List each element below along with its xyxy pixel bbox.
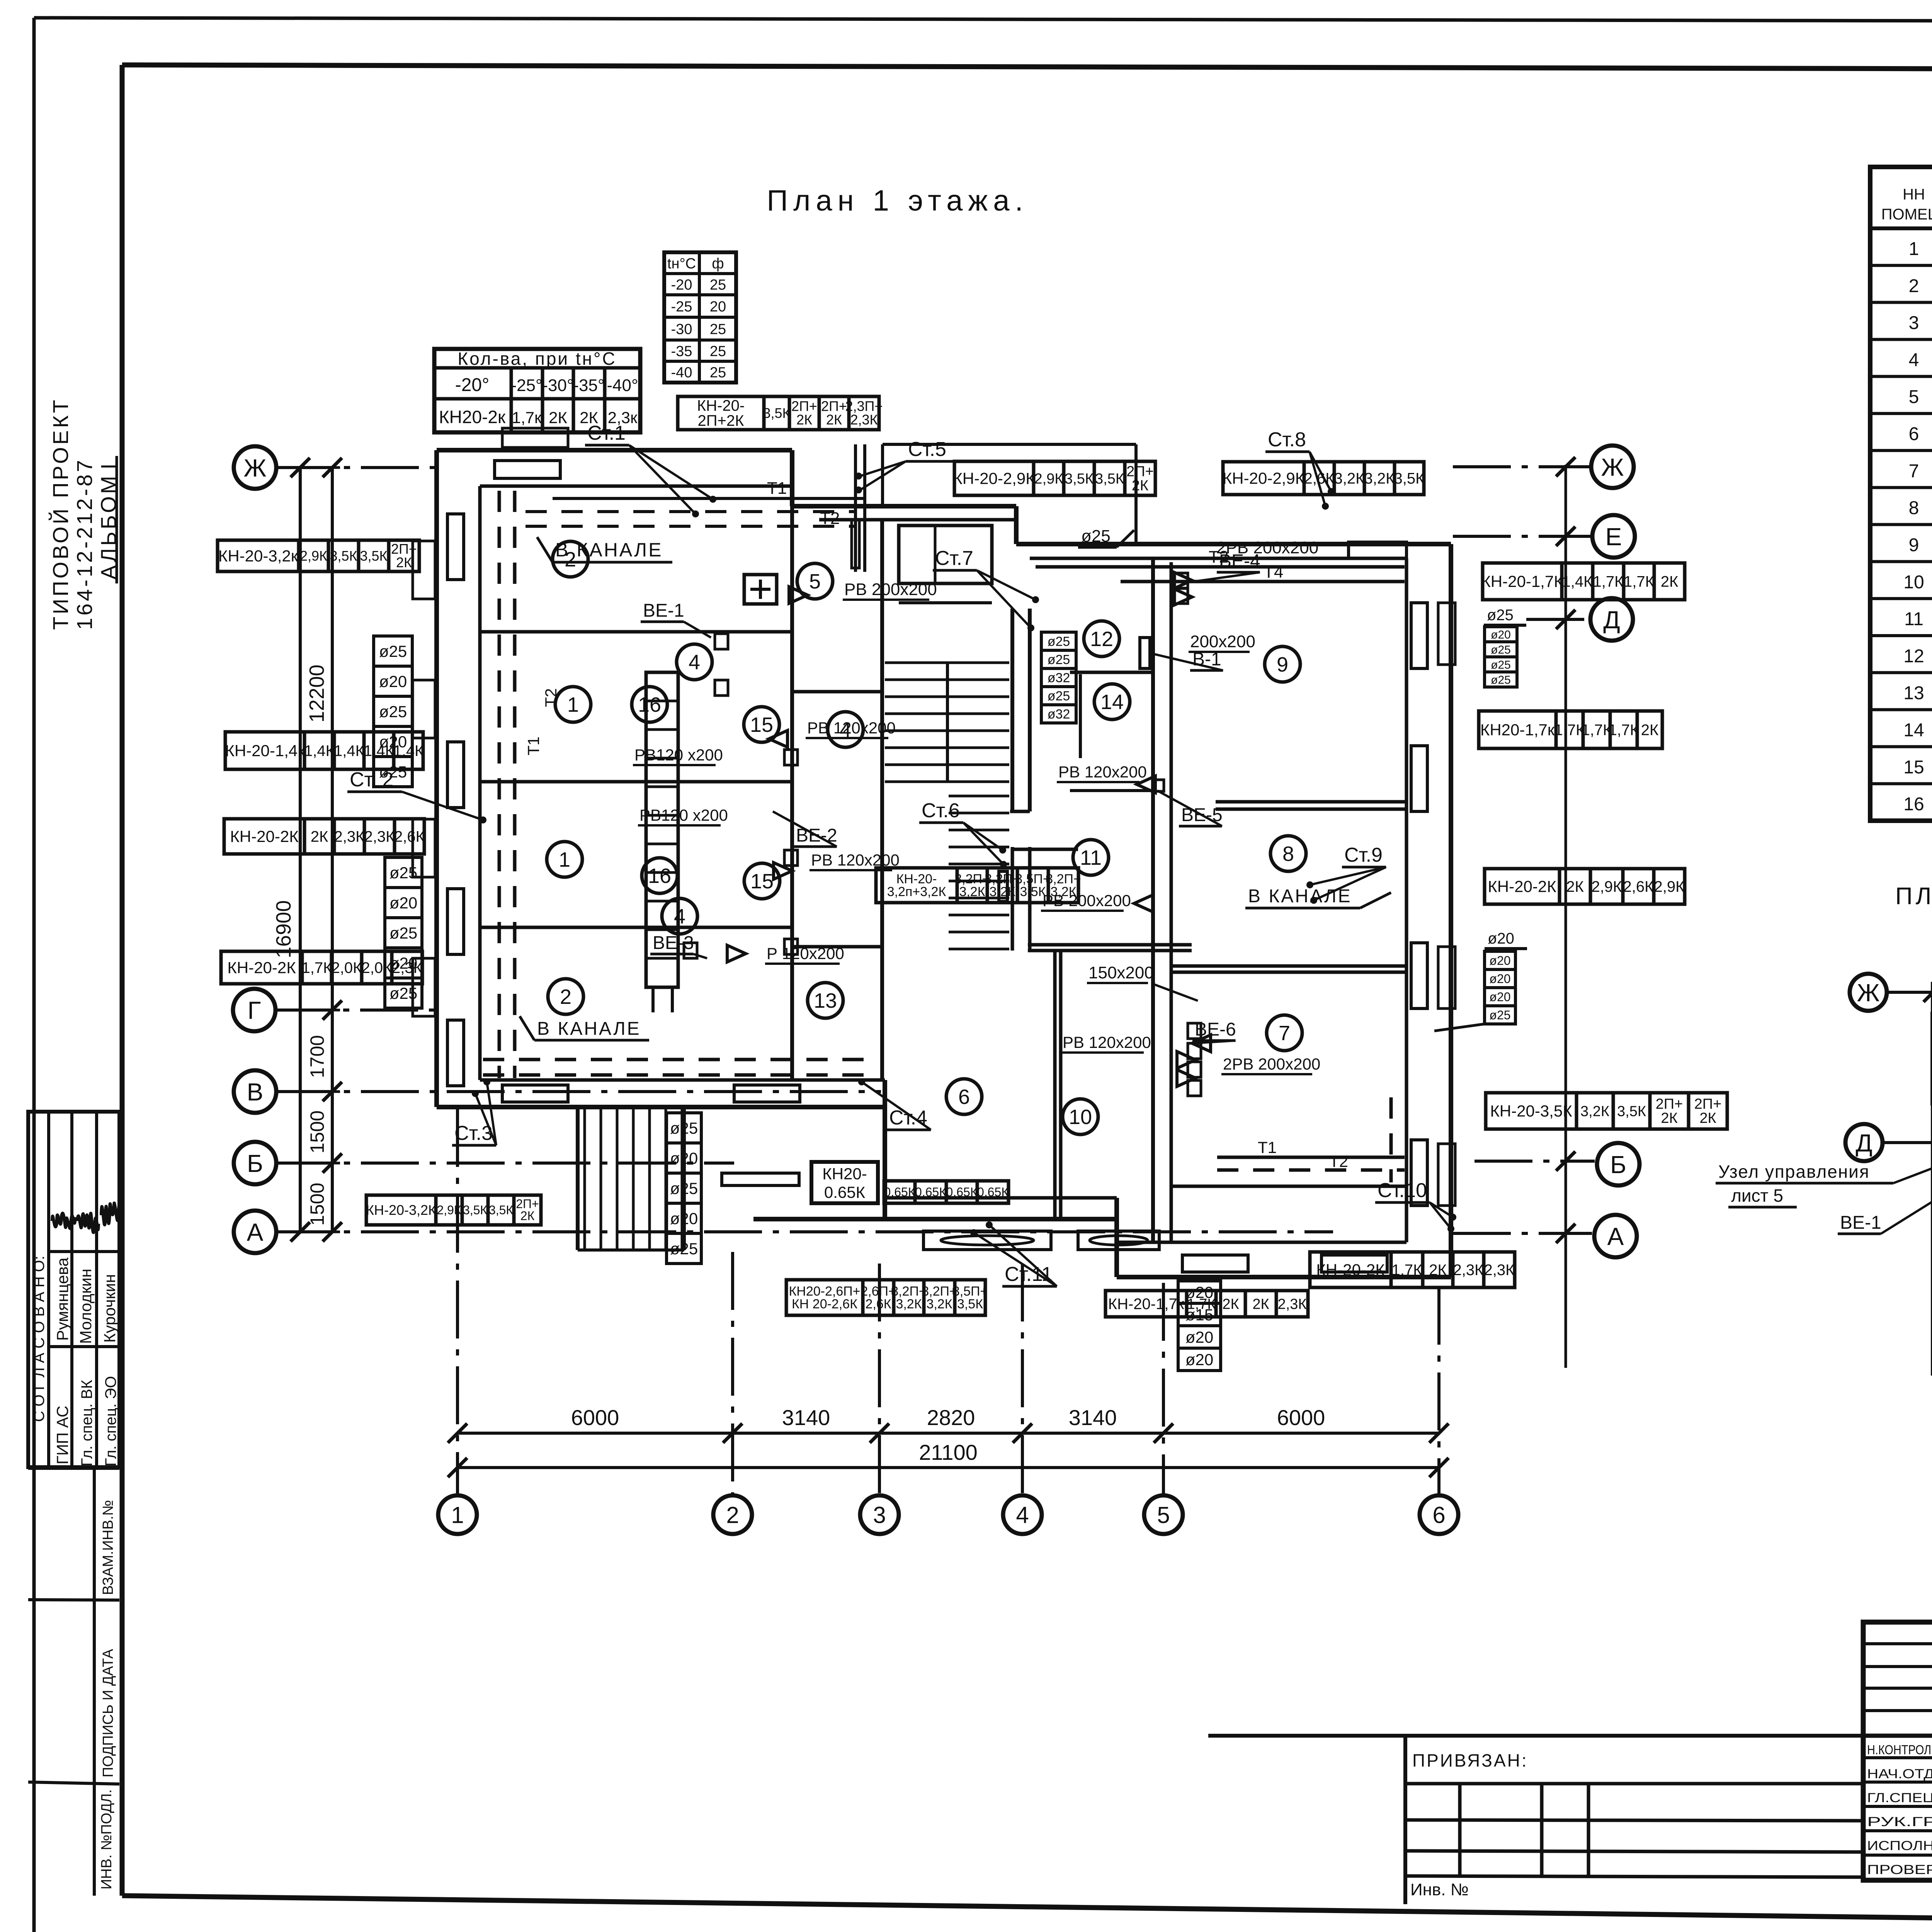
svg-text:12: 12 — [1903, 646, 1924, 667]
stamp signatures — [52, 1213, 75, 1229]
radiators north wall — [495, 461, 560, 478]
wall: east exterior — [1449, 544, 1453, 1277]
label table KN-20-2 left 3 — [221, 951, 302, 984]
svg-text:-30: -30 — [671, 321, 692, 338]
basement axis D left — [1883, 1141, 1932, 1144]
svg-text:13: 13 — [1903, 683, 1924, 704]
main stair treads upper flight — [885, 662, 1009, 664]
label table KN-20-1,7 right upper — [1483, 563, 1562, 600]
svg-text:0,65К: 0,65К — [884, 1185, 915, 1199]
axis Б — [234, 1142, 276, 1184]
svg-text:Ст.3: Ст.3 — [454, 1122, 493, 1145]
room 4 — [662, 898, 697, 934]
svg-text:КН-20-1,7к: КН-20-1,7к — [1108, 1296, 1184, 1313]
svg-text:Е: Е — [1605, 523, 1622, 551]
svg-text:1,4К: 1,4К — [1562, 573, 1593, 590]
svg-text:ø25: ø25 — [389, 924, 417, 942]
svg-text:Ж: Ж — [1601, 453, 1624, 481]
small duct squares — [715, 634, 728, 649]
label table KN-20-1,7 bottom mid — [1105, 1291, 1187, 1317]
svg-text:1: 1 — [567, 693, 579, 716]
svg-text:14: 14 — [1903, 720, 1924, 741]
svg-text:150х200: 150х200 — [1088, 963, 1154, 982]
label table 0,65 strip — [884, 1181, 915, 1203]
svg-text:Г: Г — [248, 997, 261, 1024]
wall: west exterior — [434, 450, 439, 1107]
svg-text:4: 4 — [1909, 350, 1919, 370]
svg-text:16: 16 — [1903, 794, 1924, 815]
svg-text:КН-20-2К: КН-20-2К — [227, 959, 296, 977]
svg-text:КН20-1,7к: КН20-1,7к — [1480, 721, 1555, 739]
svg-text:ø20: ø20 — [1489, 972, 1510, 986]
svg-text:2,3К: 2,3К — [850, 412, 878, 428]
axis line A right — [1453, 1232, 1592, 1235]
porch pads — [923, 1231, 1051, 1250]
svg-text:3,5К: 3,5К — [763, 405, 790, 421]
svg-text:1: 1 — [451, 1502, 464, 1528]
svg-text:Ст.4: Ст.4 — [889, 1107, 927, 1129]
svg-text:2,0К: 2,0К — [332, 959, 362, 976]
radiators east wall — [1411, 603, 1427, 668]
svg-text:164-12-212-87: 164-12-212-87 — [72, 458, 97, 630]
svg-text:2,6К: 2,6К — [865, 1297, 891, 1311]
pipe T2 top — [526, 510, 855, 513]
svg-text:2К: 2К — [311, 828, 328, 845]
svg-text:ø25: ø25 — [1048, 634, 1070, 649]
svg-text:3140: 3140 — [1069, 1405, 1117, 1430]
svg-text:ø32: ø32 — [1048, 671, 1070, 685]
svg-text:2: 2 — [1909, 276, 1919, 296]
svg-text:ø25: ø25 — [389, 984, 417, 1002]
svg-text:2К: 2К — [826, 412, 842, 428]
svg-text:КН20-: КН20- — [822, 1165, 867, 1183]
svg-text:КН-20-3,2к: КН-20-3,2к — [218, 547, 298, 565]
svg-text:3,5К: 3,5К — [1394, 470, 1425, 487]
svg-text:2П+: 2П+ — [1694, 1096, 1722, 1112]
svg-text:2: 2 — [560, 985, 571, 1009]
svg-text:2,6К: 2,6К — [1623, 878, 1654, 895]
svg-text:2К: 2К — [1641, 722, 1659, 739]
svg-text:2П+2К: 2П+2К — [698, 412, 745, 429]
svg-text:-25°: -25° — [511, 376, 542, 395]
room 12 — [1084, 621, 1119, 656]
svg-text:16: 16 — [638, 693, 661, 716]
svg-text:Молодкин: Молодкин — [77, 1269, 95, 1344]
svg-text:ø20: ø20 — [389, 894, 417, 912]
room 4 — [677, 644, 712, 680]
svg-text:ø20: ø20 — [389, 954, 417, 972]
svg-text:ø25: ø25 — [1487, 607, 1514, 624]
svg-text:ø25: ø25 — [1491, 658, 1511, 671]
radiators south walls — [502, 1085, 568, 1102]
svg-text:1,7К: 1,7К — [1392, 1262, 1423, 1279]
svg-text:11: 11 — [1080, 846, 1102, 869]
svg-text:ВЕ-1: ВЕ-1 — [1840, 1213, 1881, 1233]
svg-text:2К: 2К — [1661, 573, 1679, 590]
svg-text:2К: 2К — [549, 408, 567, 427]
svg-text:3,5К: 3,5К — [489, 1203, 513, 1217]
privyazan box — [1208, 1734, 1863, 1738]
label table KN-20-2p+2k — [678, 396, 764, 430]
svg-text:3,2п+3,2К: 3,2п+3,2К — [887, 884, 946, 899]
svg-text:Ст.8: Ст.8 — [1268, 429, 1306, 451]
svg-text:3: 3 — [1909, 313, 1919, 333]
svg-text:1,7К: 1,7К — [1593, 573, 1624, 590]
svg-text:4: 4 — [689, 651, 700, 674]
table Kol-vo pri tn — [434, 349, 640, 432]
svg-text:В КАНАЛЕ: В КАНАЛЕ — [537, 1019, 641, 1039]
pipes south right block — [1217, 1156, 1405, 1159]
svg-text:ИНВ. №ПОДЛ.: ИНВ. №ПОДЛ. — [99, 1789, 115, 1889]
svg-text:-40: -40 — [671, 365, 692, 381]
axis 6 — [1420, 1495, 1458, 1534]
svg-text:2РВ 200х200: 2РВ 200х200 — [1216, 538, 1318, 557]
axis Г — [233, 989, 276, 1031]
room 13 — [808, 983, 843, 1018]
svg-text:С О Г Л А С О В А Н О:: С О Г Л А С О В А Н О: — [31, 1256, 48, 1422]
svg-text:2820: 2820 — [927, 1405, 975, 1430]
svg-text:16: 16 — [648, 864, 671, 888]
svg-text:1,7к: 1,7к — [512, 408, 542, 427]
svg-text:А: А — [1607, 1223, 1624, 1250]
north porch outline — [881, 444, 884, 506]
svg-text:Н.КОНТРОЛЬ: Н.КОНТРОЛЬ — [1867, 1743, 1932, 1757]
svg-text:ø25: ø25 — [670, 1119, 698, 1137]
svg-text:Б: Б — [1610, 1151, 1626, 1179]
pipe dia stack entry S3 — [667, 1113, 701, 1143]
svg-text:2П+: 2П+ — [1126, 463, 1154, 480]
svg-text:ф: ф — [712, 256, 724, 272]
svg-text:3,2К: 3,2К — [1364, 470, 1395, 487]
label table KN-20-2 right lower — [1485, 869, 1560, 904]
svg-text:Д: Д — [1603, 606, 1620, 634]
room 8 — [1270, 836, 1306, 871]
partition rooms 9/8 — [1216, 800, 1406, 804]
partition kitchen bottom — [792, 690, 882, 694]
axis 1 — [438, 1495, 477, 1534]
svg-text:КН-20-1,4к: КН-20-1,4к — [225, 742, 305, 760]
svg-text:ø20: ø20 — [1488, 930, 1514, 947]
north vestibule — [899, 526, 992, 583]
svg-text:ø25: ø25 — [1081, 527, 1111, 546]
inner drawing frame — [122, 65, 1932, 70]
svg-text:КН-20-: КН-20- — [697, 397, 745, 414]
partition rooms 8/7 — [1171, 964, 1406, 968]
pipe T2 right block top — [1036, 565, 1405, 569]
svg-text:КН-20-3,2К: КН-20-3,2К — [366, 1202, 436, 1218]
svg-text:6000: 6000 — [1277, 1405, 1325, 1430]
svg-text:1700: 1700 — [306, 1035, 328, 1078]
svg-text:3,5К: 3,5К — [1617, 1103, 1646, 1119]
svg-text:ø25: ø25 — [1491, 643, 1511, 656]
pipe dia stack left S1 — [374, 636, 412, 666]
room 9 — [1265, 646, 1300, 682]
svg-text:2,3К: 2,3К — [1484, 1262, 1515, 1279]
svg-text:2К: 2К — [1132, 478, 1148, 494]
svg-text:ø25: ø25 — [379, 642, 407, 660]
svg-text:6: 6 — [1432, 1502, 1445, 1528]
svg-text:13: 13 — [814, 989, 837, 1012]
svg-text:Ст.10: Ст.10 — [1378, 1179, 1427, 1202]
room 10 — [1063, 1099, 1098, 1134]
label table KN20-2,6P two-row — [786, 1280, 863, 1315]
svg-text:5: 5 — [809, 570, 821, 593]
svg-text:10: 10 — [1069, 1105, 1092, 1129]
svg-text:В КАНАЛЕ: В КАНАЛЕ — [1248, 886, 1352, 906]
dim line left segments — [331, 468, 334, 1232]
wall: south of right block — [1117, 1275, 1451, 1279]
pipe dia stack right S6 — [1485, 951, 1515, 969]
svg-text:НАЧ.ОТД.: НАЧ.ОТД. — [1867, 1767, 1932, 1781]
main stair treads lower flight — [949, 795, 1009, 798]
svg-text:6000: 6000 — [571, 1405, 619, 1430]
svg-text:1,4К: 1,4К — [334, 743, 365, 760]
room 2 — [553, 541, 588, 577]
axis Е — [1592, 515, 1635, 558]
svg-text:Р 120х200: Р 120х200 — [767, 944, 844, 963]
svg-text:8: 8 — [1909, 498, 1919, 519]
svg-text:ø25: ø25 — [379, 702, 407, 721]
svg-text:В КАНАЛЕ: В КАНАЛЕ — [555, 539, 663, 561]
stamp block inv numbers — [28, 1467, 119, 1470]
pipe riser east wall — [1389, 1097, 1393, 1182]
room 11 walls — [1011, 847, 1014, 951]
svg-text:14: 14 — [1100, 690, 1124, 714]
svg-text:ø25: ø25 — [1489, 1008, 1510, 1022]
svg-text:КН-20-2К: КН-20-2К — [1316, 1261, 1385, 1279]
svg-text:ПРИВЯЗАН:: ПРИВЯЗАН: — [1412, 1750, 1528, 1770]
stair hall west wall — [880, 520, 884, 1080]
svg-text:ø20: ø20 — [1491, 628, 1511, 641]
svg-text:21100: 21100 — [919, 1440, 978, 1464]
axis line Zh — [275, 466, 437, 469]
axis line V — [275, 1090, 881, 1093]
room 7 — [1267, 1015, 1302, 1051]
kitchen appliance — [744, 575, 777, 604]
svg-text:РВ120 х200: РВ120 х200 — [639, 806, 728, 824]
svg-text:25: 25 — [710, 365, 726, 381]
axis line D — [1526, 618, 1590, 621]
vestibule radiator — [722, 1173, 799, 1185]
table tn/f — [664, 252, 736, 383]
svg-text:-35°: -35° — [573, 376, 604, 395]
svg-text:НН: НН — [1903, 186, 1925, 203]
stair hall east wall — [1010, 609, 1014, 811]
svg-text:25: 25 — [710, 277, 726, 293]
svg-text:ПОДПИСЬ И ДАТА: ПОДПИСЬ И ДАТА — [100, 1649, 116, 1777]
pipe dia stack right S5 — [1485, 627, 1517, 642]
partition under room 2 top — [480, 630, 792, 634]
svg-text:20: 20 — [710, 299, 726, 315]
extension lines left axes — [275, 466, 340, 469]
svg-text:1,7К: 1,7К — [1554, 722, 1585, 739]
svg-text:Б: Б — [247, 1150, 263, 1177]
svg-text:Д: Д — [1855, 1129, 1872, 1157]
svg-text:ВЗАМ.ИНВ.№: ВЗАМ.ИНВ.№ — [100, 1500, 116, 1595]
svg-text:лист 5: лист 5 — [1731, 1185, 1783, 1206]
svg-text:1500: 1500 — [306, 1183, 328, 1226]
svg-text:ø25: ø25 — [389, 864, 417, 882]
axis line A — [275, 1230, 1333, 1233]
svg-text:3,2К: 3,2К — [1580, 1103, 1609, 1119]
svg-text:ПОМЕЩ.: ПОМЕЩ. — [1881, 206, 1932, 223]
svg-text:15: 15 — [750, 713, 773, 736]
svg-text:ø25: ø25 — [1048, 689, 1070, 704]
svg-text:0,65К: 0,65К — [915, 1185, 946, 1199]
svg-text:2К: 2К — [1699, 1110, 1716, 1126]
svg-text:Курочкин: Курочкин — [100, 1274, 119, 1343]
stair hall north wall — [792, 504, 1016, 509]
svg-text:Узел управления: Узел управления — [1718, 1162, 1870, 1182]
svg-text:КН 20-2,6К: КН 20-2,6К — [792, 1297, 857, 1311]
axis Д — [1845, 1124, 1883, 1161]
svg-text:2,3К: 2,3К — [1453, 1262, 1484, 1279]
wall: south of left block — [437, 1105, 885, 1109]
partition rooms 12/14 — [1070, 671, 1153, 674]
title block — [1863, 1622, 1932, 1880]
svg-text:2,9К: 2,9К — [300, 548, 327, 564]
axis Ж — [1850, 974, 1887, 1011]
svg-text:3,5К: 3,5К — [330, 548, 357, 564]
svg-text:Ст.5: Ст.5 — [908, 438, 946, 461]
partition above room 2 bottom — [480, 926, 792, 929]
svg-text:2,9К: 2,9К — [1592, 878, 1622, 895]
kitchen risers — [854, 444, 857, 572]
pipe dia stack bottom S7 — [1178, 1281, 1221, 1303]
svg-text:ИСПОЛН.: ИСПОЛН. — [1867, 1838, 1932, 1853]
svg-text:ø25: ø25 — [1491, 673, 1511, 686]
svg-text:РВ 120х200: РВ 120х200 — [1058, 763, 1147, 781]
svg-text:0,65К: 0,65К — [946, 1185, 978, 1199]
svg-text:2К: 2К — [1661, 1110, 1677, 1126]
label table KN-20-3,5 right bottom — [1486, 1093, 1577, 1129]
svg-text:Т2: Т2 — [1329, 1152, 1348, 1170]
svg-text:2К: 2К — [1566, 878, 1584, 895]
svg-text:ø15: ø15 — [1185, 1306, 1213, 1324]
axis ref vertical right — [1565, 465, 1567, 1368]
svg-text:ø20: ø20 — [670, 1209, 698, 1228]
pipe T1/T2 risers west wall (dashed) — [498, 491, 501, 1078]
axis 4 — [1003, 1495, 1042, 1534]
wall: north exterior left block — [437, 448, 792, 452]
windows east outside — [1438, 603, 1455, 665]
svg-text:3,2К: 3,2К — [1334, 470, 1365, 487]
svg-text:КН-20-2К: КН-20-2К — [1488, 878, 1556, 896]
label table KN-20-2,9 top mid-left — [954, 461, 1034, 495]
svg-text:Румянцева: Румянцева — [53, 1257, 71, 1341]
svg-text:9: 9 — [1909, 535, 1919, 555]
svg-text:15: 15 — [1903, 757, 1924, 777]
room 16 — [642, 858, 677, 893]
pipe T1 top — [553, 497, 865, 500]
svg-text:9: 9 — [1277, 653, 1288, 676]
svg-text:Т1: Т1 — [767, 479, 787, 498]
svg-text:2,3К: 2,3К — [334, 828, 365, 845]
svg-text:5: 5 — [1157, 1502, 1170, 1528]
label table KN-20-3,2 left — [218, 540, 299, 571]
svg-text:2П+: 2П+ — [1656, 1096, 1683, 1112]
label table KN-20-3,2 left bottom — [366, 1195, 436, 1225]
label table KN-20-2 bottom right — [1310, 1252, 1391, 1287]
svg-text:РВ 120х200: РВ 120х200 — [1063, 1033, 1151, 1051]
svg-text:0,65К: 0,65К — [977, 1185, 1009, 1199]
svg-text:-30°: -30° — [542, 376, 573, 395]
axis Ж — [234, 446, 276, 489]
axis line B right — [1475, 1160, 1595, 1163]
svg-text:1,4К: 1,4К — [304, 743, 335, 760]
pipe dia stack left S2 — [385, 857, 422, 888]
svg-text:1,7К: 1,7К — [1624, 573, 1655, 590]
windows west outside — [413, 541, 435, 599]
KN20-0,65K box — [811, 1162, 878, 1203]
axis line B — [275, 1162, 734, 1165]
svg-text:2,3К: 2,3К — [364, 828, 395, 845]
label table KN20-1,7 right mid — [1479, 711, 1556, 748]
svg-text:Ст.1: Ст.1 — [587, 422, 626, 444]
room 1 — [555, 687, 591, 722]
svg-text:-35: -35 — [671, 344, 692, 360]
svg-text:ø20: ø20 — [670, 1149, 698, 1167]
basement axis Zh — [1887, 991, 1932, 994]
svg-text:25: 25 — [710, 321, 726, 338]
svg-text:5: 5 — [1909, 387, 1919, 407]
svg-text:Ж: Ж — [1857, 979, 1879, 1007]
room 15 — [744, 863, 780, 899]
axis А — [1594, 1215, 1637, 1257]
svg-text:ø20: ø20 — [1185, 1283, 1213, 1301]
svg-text:3,2К: 3,2К — [926, 1297, 952, 1311]
axis 3 — [860, 1495, 899, 1534]
svg-text:А: А — [247, 1218, 264, 1246]
wall: north step between blocks — [1014, 506, 1019, 544]
svg-text:25: 25 — [710, 344, 726, 360]
svg-text:7: 7 — [1909, 461, 1919, 481]
axis Д — [1590, 598, 1633, 641]
svg-text:16900: 16900 — [272, 900, 295, 958]
wall rooms 9 west — [1151, 558, 1155, 1242]
svg-text:ø20: ø20 — [1185, 1328, 1213, 1346]
wall: middle south connector — [883, 1080, 887, 1219]
svg-text:3,2К: 3,2К — [959, 884, 985, 899]
svg-text:2,6К: 2,6К — [394, 828, 425, 845]
svg-text:Ст.7: Ст.7 — [935, 547, 973, 570]
svg-text:1500: 1500 — [306, 1111, 328, 1153]
svg-text:2,9К: 2,9К — [437, 1203, 461, 1217]
svg-text:15: 15 — [750, 870, 774, 893]
svg-text:РВ 200х200: РВ 200х200 — [844, 580, 937, 599]
svg-text:200х200: 200х200 — [1190, 632, 1255, 651]
svg-text:План 1 этажа.: План 1 этажа. — [767, 184, 1028, 217]
svg-text:3: 3 — [873, 1502, 886, 1528]
svg-text:tн°С: tн°С — [667, 256, 696, 272]
pipe T4 right block — [1121, 580, 1405, 583]
axis Ж — [1591, 446, 1634, 488]
axis verticals to bottom circles — [456, 1109, 459, 1496]
svg-text:КН-20-1,7К: КН-20-1,7К — [1481, 572, 1563, 590]
svg-text:3,2К: 3,2К — [989, 884, 1015, 899]
svg-text:3,5К: 3,5К — [1020, 884, 1046, 899]
svg-text:РВ 200х200: РВ 200х200 — [1043, 891, 1131, 910]
svg-text:ВЕ-1: ВЕ-1 — [643, 600, 684, 621]
svg-text:Гл. спец. ВК: Гл. спец. ВК — [78, 1379, 95, 1466]
svg-text:ø20: ø20 — [1489, 990, 1510, 1004]
label table KN-20-2 left 2 — [224, 819, 304, 854]
dim line segments bottom — [457, 1432, 1439, 1435]
svg-text:ПРОВЕР.: ПРОВЕР. — [1867, 1862, 1932, 1877]
svg-text:Т1: Т1 — [524, 736, 543, 755]
svg-text:Гл. спец. ЭО: Гл. спец. ЭО — [102, 1376, 119, 1466]
room 5 — [797, 563, 833, 599]
